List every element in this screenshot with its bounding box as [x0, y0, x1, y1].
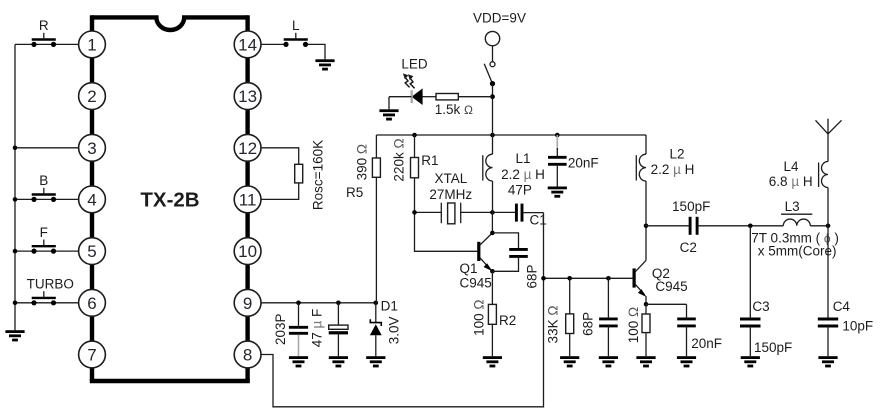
svg-text:10pF: 10pF: [842, 319, 873, 334]
svg-text:14: 14: [238, 35, 257, 54]
svg-text:1: 1: [87, 35, 96, 54]
svg-text:2.2 µ H: 2.2 µ H: [651, 162, 695, 177]
svg-text:L3: L3: [785, 199, 800, 214]
svg-text:L4: L4: [783, 159, 799, 174]
svg-text:R: R: [39, 18, 49, 33]
svg-text:6.8 µ H: 6.8 µ H: [769, 174, 813, 189]
svg-text:20nF: 20nF: [691, 336, 722, 351]
svg-text:TURBO: TURBO: [27, 277, 74, 292]
svg-text:L: L: [292, 18, 300, 33]
svg-text:C3: C3: [752, 299, 769, 314]
svg-text:Rosc=160K: Rosc=160K: [311, 140, 326, 210]
svg-text:8: 8: [243, 346, 252, 365]
svg-text:C4: C4: [833, 299, 851, 314]
svg-text:10: 10: [238, 242, 257, 261]
svg-text:390 Ω: 390 Ω: [355, 144, 370, 180]
svg-text:150pF: 150pF: [672, 199, 710, 214]
svg-text:3: 3: [87, 139, 96, 158]
svg-text:R5: R5: [346, 185, 363, 200]
svg-text:9: 9: [243, 294, 252, 313]
svg-text:R2: R2: [499, 313, 516, 328]
svg-text:7: 7: [87, 346, 96, 365]
svg-text:3.0V: 3.0V: [386, 317, 401, 345]
svg-text:L2: L2: [669, 146, 684, 161]
svg-text:C1: C1: [530, 213, 547, 228]
svg-text:R1: R1: [421, 153, 438, 168]
svg-text:C2: C2: [680, 240, 697, 255]
svg-text:203P: 203P: [273, 313, 288, 345]
svg-text:1.5k Ω: 1.5k Ω: [435, 102, 473, 117]
svg-text:x 5mm(Core): x 5mm(Core): [758, 243, 837, 258]
svg-text:5: 5: [87, 242, 96, 261]
svg-text:68P: 68P: [524, 264, 539, 288]
svg-text:C945: C945: [460, 276, 492, 291]
svg-text:Q1: Q1: [460, 261, 478, 276]
svg-text:27MHz: 27MHz: [429, 187, 472, 202]
svg-text:B: B: [39, 173, 48, 188]
svg-text:2: 2: [87, 87, 96, 106]
svg-text:11: 11: [239, 190, 257, 209]
svg-text:12: 12: [238, 139, 257, 158]
svg-text:220k Ω: 220k Ω: [391, 138, 406, 181]
svg-text:C945: C945: [655, 279, 687, 294]
svg-text:150pF: 150pF: [754, 340, 792, 355]
svg-text:6: 6: [87, 294, 96, 313]
svg-text:LED: LED: [401, 57, 428, 72]
svg-text:33K Ω: 33K Ω: [546, 306, 561, 344]
svg-text:20nF: 20nF: [568, 155, 599, 170]
svg-text:L1: L1: [515, 151, 530, 166]
svg-text:47 µ F: 47 µ F: [309, 309, 324, 348]
svg-text:TX-2B: TX-2B: [140, 189, 199, 212]
svg-text:100 Ω: 100 Ω: [472, 300, 487, 336]
svg-text:100 Ω: 100 Ω: [626, 307, 641, 343]
svg-text:47P: 47P: [508, 182, 532, 197]
svg-text:13: 13: [238, 87, 257, 106]
svg-text:68P: 68P: [580, 312, 595, 336]
svg-text:F: F: [40, 225, 48, 240]
svg-text:XTAL: XTAL: [435, 171, 468, 186]
svg-text:2.2 µ H: 2.2 µ H: [501, 167, 545, 182]
svg-text:VDD=9V: VDD=9V: [473, 11, 526, 26]
svg-text:D1: D1: [381, 299, 398, 314]
svg-text:4: 4: [87, 190, 96, 209]
